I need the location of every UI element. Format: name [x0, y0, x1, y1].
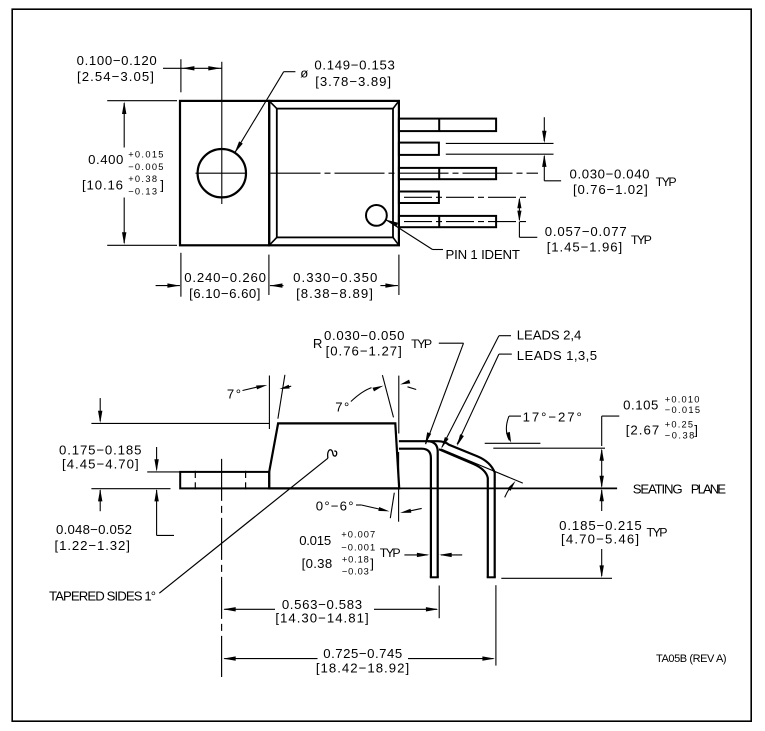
dim 0.100-0.120: extension line at tab left edge	[180, 59, 182, 92]
dim 0.048-0.052: tab top extension line	[147, 471, 180, 473]
dim 0.725: extension line below leads 1,3,5	[495, 585, 497, 665]
svg-text:0.330−0.350: 0.330−0.350	[293, 270, 378, 285]
svg-text:17°−27°: 17°−27°	[523, 410, 584, 425]
svg-text:[1.45−1.96]: [1.45−1.96]	[547, 240, 623, 255]
dim 0.030-0.040: down arrow	[542, 117, 546, 143]
label LEADS 1,3,5 leader	[457, 354, 512, 446]
dim text [18.42-18.92]	[316, 661, 410, 676]
svg-text:PLANE: PLANE	[691, 482, 726, 497]
svg-text:ø: ø	[300, 65, 308, 80]
dim text 0.175-0.185	[59, 442, 142, 457]
svg-text:0.048−0.052: 0.048−0.052	[56, 522, 132, 537]
svg-text:−0.03: −0.03	[342, 567, 370, 577]
svg-text:0.175−0.185: 0.175−0.185	[59, 442, 142, 457]
svg-text:[6.10−6.60]: [6.10−6.60]	[189, 286, 261, 301]
dim tol -0.005	[128, 162, 165, 172]
dim tol -0.001	[341, 543, 376, 553]
dim text [0.38	[302, 556, 333, 571]
svg-text:0.240−0.260: 0.240−0.260	[184, 270, 266, 285]
dim text 0.105	[623, 398, 659, 413]
dim text [0.76-1.27]	[326, 343, 403, 358]
tapered sides leader with squiggle end	[159, 450, 336, 593]
svg-text:0.100−0.120: 0.100−0.120	[77, 53, 158, 68]
dim tol -0.38	[665, 431, 696, 441]
top view: hole vertical centerline / extension line	[221, 62, 223, 204]
dim tol +0.010	[665, 394, 701, 404]
top view: lead 3 (middle, full length)	[399, 168, 496, 179]
label LEADS 2,4	[517, 328, 581, 343]
svg-text:−0.001: −0.001	[341, 543, 376, 553]
dim 0.175-0.185: arrows	[98, 398, 102, 511]
dim text [6.10-6.60]	[189, 286, 261, 301]
dim tol +0.38	[128, 174, 158, 184]
side view: hole centerline (dash-dot vertical)	[221, 459, 223, 677]
dim text [3.78-3.89]	[315, 74, 392, 89]
dim text TYP (0.015)	[380, 546, 401, 560]
side view: tab outline	[180, 472, 269, 489]
dim text 0.400	[88, 152, 124, 167]
dim text TYP (0.057)	[631, 233, 652, 247]
dim 0.400: top extension line	[107, 100, 177, 102]
dim text 0.563-0.583	[282, 597, 363, 612]
svg-text:0.057−0.077: 0.057−0.077	[545, 224, 628, 239]
pin 1 ident leader and arrow	[386, 220, 443, 250]
dim text [1.45-1.96]	[547, 240, 623, 255]
svg-text:+0.25: +0.25	[665, 419, 694, 429]
svg-text:−0.38: −0.38	[665, 431, 696, 441]
dim text 0.240-0.260	[184, 270, 266, 285]
dim 0.105: leader and extension	[493, 416, 619, 448]
top view: lead 1 centerline (dash-dot)	[404, 221, 529, 223]
svg-text:+0.007: +0.007	[341, 530, 376, 540]
side view: leads 1,3,5 lower bend line	[439, 449, 488, 577]
svg-text:−0.13: −0.13	[128, 186, 158, 196]
svg-text:7°: 7°	[227, 387, 243, 402]
top view: body inner (chamfer) outline	[269, 101, 399, 245]
svg-text:R: R	[313, 336, 323, 351]
dim text dia symbol	[300, 65, 308, 80]
svg-text:0.149−0.153: 0.149−0.153	[314, 58, 395, 73]
dim 7deg right: vertical reference line	[398, 376, 400, 434]
dim text 0.725-0.745	[323, 646, 403, 661]
svg-text:[0.76−1.02]: [0.76−1.02]	[573, 182, 649, 197]
label PIN 1 IDENT	[446, 247, 520, 262]
dim text [8.38-8.89]	[296, 286, 374, 301]
svg-text:+0.010: +0.010	[665, 394, 701, 404]
top view: package horizontal centerline (dash-dot)	[271, 172, 539, 174]
dim 0-6deg: text	[316, 498, 355, 513]
svg-text:[2.67: [2.67	[626, 422, 661, 437]
dim 0-6deg: slant line	[390, 493, 394, 519]
dim 17-27deg: horizontal reference line	[485, 442, 541, 444]
svg-text:TYP: TYP	[656, 175, 677, 189]
dim text ] after 0.38	[370, 556, 374, 571]
dim 0.105: double arrow	[600, 448, 604, 488]
dim text [2.54-3.05]	[77, 69, 155, 84]
svg-text:[8.38−8.89]: [8.38−8.89]	[296, 286, 374, 301]
svg-text:7°: 7°	[335, 400, 351, 415]
dim R 0.030-0.050: text R	[313, 336, 323, 351]
dim 0.240/0.330: right extension line	[398, 255, 400, 295]
dim tol +0.007	[341, 530, 376, 540]
dim 0.175-0.185: body top extension line	[91, 422, 269, 424]
drawing number TA05B (REV A)	[656, 653, 726, 665]
svg-text:PIN 1 IDENT: PIN 1 IDENT	[446, 247, 520, 262]
dim text 0.100-0.120	[77, 53, 158, 68]
dim text [4.45-4.70]	[62, 457, 140, 472]
top view: mounting hole	[198, 149, 246, 197]
svg-text:0.015: 0.015	[299, 533, 331, 548]
svg-text:0.105: 0.105	[623, 398, 659, 413]
side view: lead tip extension line	[501, 577, 612, 579]
dim tol +0.18	[342, 555, 370, 565]
dim 0.400: dimension line and arrows	[122, 102, 126, 245]
svg-text:]: ]	[160, 177, 164, 192]
svg-text:LEADS 2,4: LEADS 2,4	[517, 328, 581, 343]
dim text 0.015	[299, 533, 331, 548]
svg-text:−0.015: −0.015	[665, 405, 702, 415]
dim tol -0.13	[128, 186, 158, 196]
dim tol -0.03	[342, 567, 370, 577]
dim text 0.048-0.052	[56, 522, 132, 537]
hole diameter leader line and arrow	[235, 72, 296, 154]
dim 0.330-0.350 arrow right	[380, 283, 398, 287]
top view: lead 2 centerline (dash-dot)	[404, 196, 529, 198]
side view: lead bottom surface and leads 2,4 left edge	[399, 449, 431, 578]
top view: lead 1 (bottom, full length)	[399, 216, 496, 227]
dim 0.240/0.330: middle extension line	[268, 255, 270, 295]
dim 7deg left: slant line	[278, 375, 285, 419]
dim text [0.76-1.02]	[573, 182, 649, 197]
dim text [2.67	[626, 422, 661, 437]
dim text [1.22-1.32]	[55, 538, 131, 553]
svg-text:0.030−0.040: 0.030−0.040	[570, 167, 651, 182]
top view: pin 1 ident circle	[366, 205, 387, 226]
dim 0-6deg: arrows	[356, 505, 422, 513]
dim 0.048-0.052: arrows and leader	[154, 447, 174, 535]
dim 17-27deg: leader from text	[506, 416, 521, 443]
dim 7deg left: text and arrows	[227, 385, 291, 402]
svg-text:[10.16: [10.16	[82, 177, 124, 192]
svg-text:SEATING: SEATING	[633, 482, 683, 497]
label TAPERED SIDES 1deg	[49, 589, 156, 604]
dim 0.057-0.077: leader	[519, 222, 537, 238]
svg-text:+0.38: +0.38	[128, 174, 158, 184]
svg-text:]: ]	[694, 422, 698, 437]
top view: hole horizontal centerline	[196, 172, 248, 174]
dim text 0.149-0.153	[314, 58, 395, 73]
dim 0.185-0.215: arrows	[600, 489, 604, 578]
dim 0.563: extension line below leads 2,4	[438, 586, 440, 619]
dim 0.030-0.040: up arrow with leader	[542, 154, 561, 180]
label LEADS 1,3,5	[517, 348, 598, 363]
svg-text:0.030−0.050: 0.030−0.050	[324, 328, 405, 343]
dim tol -0.015	[665, 405, 702, 415]
dim text ] after 2.67	[694, 422, 698, 437]
top view: lead 4 (short)	[399, 143, 439, 155]
dim 17-27deg: small arrow on angle line	[505, 481, 516, 498]
dim 0.725-0.745: line and arrows	[223, 656, 495, 660]
dim 7deg right: text and arrows	[335, 380, 416, 415]
dim 0.563-0.583: line and arrows	[223, 607, 438, 611]
dim text 17deg-27deg	[523, 410, 584, 425]
top view: body outer outline	[269, 101, 399, 245]
side view: leads 1,3,5 tip cap	[487, 576, 496, 578]
svg-text:−0.005: −0.005	[128, 162, 165, 172]
svg-text:[3.78−3.89]: [3.78−3.89]	[315, 74, 392, 89]
svg-text:+0.015: +0.015	[128, 149, 165, 159]
svg-text:TYP: TYP	[631, 233, 652, 247]
svg-text:TYP: TYP	[411, 337, 432, 351]
dim 0.400: bottom extension line	[107, 244, 177, 246]
svg-text:]: ]	[370, 556, 374, 571]
svg-text:LEADS 1,3,5: LEADS 1,3,5	[517, 348, 598, 363]
svg-text:[4.70−5.46]: [4.70−5.46]	[561, 532, 640, 547]
dim 17-27deg: thin angle line	[441, 449, 523, 483]
svg-text:0.725−0.745: 0.725−0.745	[323, 646, 403, 661]
svg-text:0°−6°: 0°−6°	[316, 498, 355, 513]
dim text ] after 10.16 tolerances	[160, 177, 164, 192]
seating plane line	[399, 487, 617, 489]
svg-text:0.400: 0.400	[88, 152, 124, 167]
dim text 0.330-0.350	[293, 270, 378, 285]
dim text TYP (R)	[411, 337, 432, 351]
dim 0-6deg: vertical reference line below body	[398, 452, 400, 522]
dim 0.240-0.260 arrows	[156, 283, 284, 287]
svg-text:TAPERED SIDES 1°: TAPERED SIDES 1°	[49, 589, 156, 604]
dim text 0.185-0.215	[559, 518, 643, 533]
dim text [14.30-14.81]	[275, 611, 369, 626]
dim 0.240/0.330: left extension line	[180, 253, 182, 297]
dim text TYP (0.185)	[647, 525, 668, 539]
svg-text:+0.18: +0.18	[342, 555, 370, 565]
side view: body outline	[269, 423, 399, 488]
dim 0.015: arrows at lead	[404, 553, 462, 557]
svg-text:[4.45−4.70]: [4.45−4.70]	[62, 457, 140, 472]
dim 7deg left: vertical reference line	[268, 376, 270, 430]
svg-text:[1.22−1.32]: [1.22−1.32]	[55, 538, 131, 553]
dim 0.100-0.120: dimension line and arrows	[163, 66, 222, 70]
dim R: leader line and arrow	[425, 343, 464, 444]
side view: lead top surface and leads 1,3,5 bend	[399, 441, 495, 577]
top view: lead 5 (top, full length)	[399, 119, 496, 132]
dim text [4.70-5.46]	[561, 532, 640, 547]
side view: leads 2,4 tip cap	[430, 576, 439, 578]
svg-text:TA05B (REV A): TA05B (REV A)	[656, 653, 726, 665]
svg-text:[0.76−1.27]: [0.76−1.27]	[326, 343, 403, 358]
label LEADS 2,4 leader	[441, 336, 511, 449]
top view: mounting tab outline	[180, 101, 269, 245]
svg-text:TYP: TYP	[380, 546, 401, 560]
side view: hole silhouette ticks	[195, 471, 245, 490]
svg-text:[2.54−3.05]: [2.54−3.05]	[77, 69, 155, 84]
svg-text:[18.42−18.92]: [18.42−18.92]	[316, 661, 410, 676]
dim 0.175-0.185: bottom extension line	[91, 488, 170, 490]
dim text TYP (0.030)	[656, 175, 677, 189]
dim text [10.16	[82, 177, 124, 192]
dim 0.057-0.077: double arrow	[517, 197, 521, 221]
dim 7deg right: slant line	[382, 375, 393, 417]
svg-text:TYP: TYP	[647, 525, 668, 539]
side view: leads 2,4 right-edge bend	[428, 441, 438, 577]
dim text 0.030-0.040	[570, 167, 651, 182]
top view: lead 4 narrow-width extension lines	[446, 143, 554, 154]
label SEATING PLANE	[633, 482, 727, 497]
dim text 0.057-0.077	[545, 224, 628, 239]
dim text 0.030-0.050	[324, 328, 405, 343]
svg-text:[14.30−14.81]: [14.30−14.81]	[275, 611, 369, 626]
dim tol +0.25	[665, 419, 694, 429]
svg-text:[0.38: [0.38	[302, 556, 333, 571]
dim tol +0.015	[128, 149, 165, 159]
top view: lead 2 (short)	[399, 192, 439, 204]
